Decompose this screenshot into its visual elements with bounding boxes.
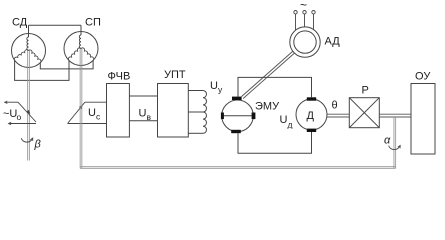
amplidyne ЭМУ <box>221 97 256 134</box>
svg-text:ЭМУ: ЭМУ <box>255 101 280 113</box>
svg-text:УПТ: УПТ <box>164 69 186 81</box>
feedback shaft down from output <box>394 117 396 168</box>
wire ЭМУ armature top <box>238 77 312 97</box>
label Uу control voltage <box>210 80 223 95</box>
wire ФЧВ to УПТ bottom <box>129 120 157 122</box>
synchro receiver СП <box>64 17 101 66</box>
svg-text:U: U <box>210 80 218 92</box>
svg-text:U: U <box>88 107 96 119</box>
label ЭМУ <box>255 101 280 113</box>
control winding coil 2 of ЭМУ <box>203 112 206 133</box>
wire УПТ to control winding top <box>188 90 203 92</box>
reducer Р <box>349 85 379 128</box>
svg-text:д: д <box>288 120 293 130</box>
feedback shaft bottom run <box>80 167 396 169</box>
label АД <box>325 36 341 48</box>
rotor leads of СП with brush arrow <box>68 102 107 123</box>
wire stator link B <box>15 60 69 80</box>
svg-text:Р: Р <box>362 85 369 97</box>
wire УПТ to control winding bottom <box>188 132 203 134</box>
svg-text:~U: ~U <box>3 108 17 120</box>
shaft of СП (feedback angle) <box>80 49 82 169</box>
wire ФЧВ to УПТ top <box>129 95 157 97</box>
wire УПТ to control winding mid <box>188 111 203 113</box>
control winding coil 1 of ЭМУ <box>203 91 206 113</box>
wire top stator link СД-СП <box>29 24 82 26</box>
svg-text:~: ~ <box>300 0 307 12</box>
rotation arrow β <box>21 138 41 151</box>
svg-text:U: U <box>280 114 288 126</box>
label Uв <box>139 108 152 123</box>
wire stator link A <box>40 60 93 69</box>
label ~U0 supply <box>3 108 22 122</box>
controlled object ОУ <box>411 71 435 155</box>
svg-text:ОУ: ОУ <box>415 71 431 83</box>
shaft Д to Р <box>327 114 349 117</box>
rotor leads of СД with brush arrow <box>5 101 36 125</box>
wire ЭМУ armature bottom <box>238 132 312 154</box>
rotation arrow α <box>384 135 400 150</box>
induction motor АД <box>290 11 320 58</box>
svg-text:α: α <box>384 135 391 147</box>
label Uд <box>280 114 293 130</box>
svg-text:θ: θ <box>332 100 338 112</box>
synchro transmitter СД <box>12 17 46 68</box>
label θ motor angle <box>332 100 338 112</box>
svg-text:β: β <box>34 139 42 151</box>
svg-text:U: U <box>139 108 147 120</box>
svg-text:в: в <box>147 112 152 122</box>
svg-text:ФЧВ: ФЧВ <box>108 71 131 83</box>
svg-text:Д: Д <box>307 110 315 122</box>
DC motor Д <box>296 97 327 132</box>
label ~ supply <box>300 0 307 12</box>
shaft of СД (input angle) <box>28 51 30 161</box>
svg-text:СД: СД <box>12 17 28 29</box>
DC amplifier УПТ <box>158 69 189 137</box>
label Uc error voltage <box>88 107 101 122</box>
svg-text:АД: АД <box>325 36 341 48</box>
phase-sensitive rectifier ФЧВ <box>107 71 131 138</box>
svg-text:СП: СП <box>85 17 101 29</box>
svg-text:о: о <box>17 112 22 122</box>
shaft АД to ЭМУ <box>241 51 294 98</box>
shaft Р to ОУ <box>379 114 411 117</box>
